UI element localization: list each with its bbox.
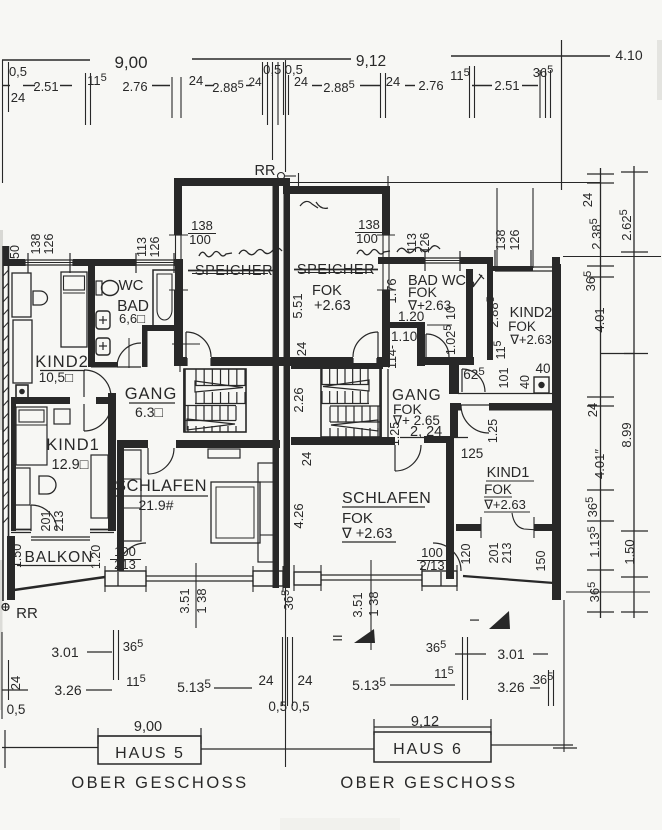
svg-text:138: 138 bbox=[191, 218, 213, 233]
svg-text:1.20: 1.20 bbox=[398, 309, 424, 324]
svg-text:138: 138 bbox=[29, 234, 43, 255]
svg-text:2.76: 2.76 bbox=[122, 79, 147, 94]
svg-text:II: II bbox=[330, 634, 345, 641]
svg-text:213: 213 bbox=[500, 543, 514, 564]
svg-text:FOK: FOK bbox=[484, 482, 512, 497]
svg-text:HAUS 5: HAUS 5 bbox=[115, 745, 185, 762]
svg-text:HAUS 6: HAUS 6 bbox=[393, 741, 463, 758]
svg-text:2.76: 2.76 bbox=[418, 78, 443, 93]
svg-text:GANG: GANG bbox=[125, 385, 178, 403]
svg-text:24: 24 bbox=[299, 452, 314, 466]
svg-text:10: 10 bbox=[444, 306, 458, 320]
svg-text:KIND1: KIND1 bbox=[487, 465, 530, 481]
svg-text:3.51: 3.51 bbox=[177, 588, 192, 613]
svg-text:100: 100 bbox=[356, 231, 378, 246]
svg-text:9,12: 9,12 bbox=[356, 53, 386, 70]
svg-text:120: 120 bbox=[459, 544, 473, 565]
svg-text:OBER GESCHOSS: OBER GESCHOSS bbox=[340, 774, 517, 792]
svg-text:113: 113 bbox=[405, 233, 419, 253]
svg-text:24: 24 bbox=[189, 73, 203, 88]
svg-text:24: 24 bbox=[297, 673, 313, 688]
svg-text:1.50: 1.50 bbox=[10, 544, 24, 568]
svg-text:0,5: 0,5 bbox=[7, 702, 26, 717]
svg-text:1.20: 1.20 bbox=[89, 545, 103, 569]
svg-text:∇+2.63: ∇+2.63 bbox=[483, 497, 526, 512]
svg-text:126: 126 bbox=[508, 230, 522, 251]
svg-text:138: 138 bbox=[358, 217, 380, 232]
svg-text:3.01: 3.01 bbox=[497, 646, 524, 662]
svg-text:213: 213 bbox=[52, 511, 66, 532]
svg-text:40: 40 bbox=[518, 375, 532, 389]
svg-text:2.51: 2.51 bbox=[494, 78, 519, 93]
svg-text:126: 126 bbox=[42, 234, 56, 255]
svg-text:6,6□: 6,6□ bbox=[119, 311, 145, 326]
svg-text:OBER GESCHOSS: OBER GESCHOSS bbox=[71, 774, 248, 792]
svg-text:6.3□: 6.3□ bbox=[135, 404, 163, 420]
svg-text:24: 24 bbox=[258, 673, 274, 688]
svg-text:RR: RR bbox=[16, 605, 38, 622]
svg-text:1.25: 1.25 bbox=[486, 419, 500, 443]
svg-text:KIND2: KIND2 bbox=[35, 353, 89, 371]
svg-text:1.10: 1.10 bbox=[391, 329, 417, 344]
svg-text:KIND1: KIND1 bbox=[46, 436, 100, 454]
svg-text:3.26: 3.26 bbox=[497, 679, 524, 695]
svg-text:1.76: 1.76 bbox=[384, 278, 399, 303]
svg-text:SCHLAFEN: SCHLAFEN bbox=[115, 477, 207, 495]
svg-text:12.9□: 12.9□ bbox=[52, 457, 89, 473]
svg-text:4.26: 4.26 bbox=[291, 503, 306, 528]
svg-text:125: 125 bbox=[461, 446, 484, 461]
svg-text:113: 113 bbox=[135, 237, 149, 257]
svg-text:∇ +2.63: ∇ +2.63 bbox=[341, 526, 392, 542]
svg-text:4.10: 4.10 bbox=[615, 47, 642, 63]
svg-text:10,5□: 10,5□ bbox=[39, 370, 73, 385]
svg-text:24: 24 bbox=[294, 342, 309, 356]
svg-text:24: 24 bbox=[8, 676, 23, 690]
svg-text:2.26: 2.26 bbox=[291, 387, 306, 412]
svg-text:FOK: FOK bbox=[312, 283, 342, 299]
svg-text:4.01″: 4.01″ bbox=[592, 449, 607, 479]
svg-text:2.51: 2.51 bbox=[33, 79, 58, 94]
svg-text:0,5: 0,5 bbox=[9, 64, 27, 79]
svg-text:24: 24 bbox=[248, 75, 262, 89]
svg-text:∇+2.63: ∇+2.63 bbox=[509, 332, 552, 347]
svg-text:138: 138 bbox=[494, 230, 508, 251]
svg-text:3.01: 3.01 bbox=[51, 644, 78, 660]
svg-text:RR: RR bbox=[255, 163, 276, 179]
svg-text:114-: 114- bbox=[385, 345, 399, 369]
svg-text:9,00: 9,00 bbox=[134, 719, 162, 735]
svg-text:I: I bbox=[467, 618, 482, 622]
svg-text:8.99: 8.99 bbox=[619, 422, 634, 447]
svg-text:+2.63: +2.63 bbox=[314, 298, 351, 314]
svg-text:100: 100 bbox=[189, 232, 211, 247]
svg-text:1.50: 1.50 bbox=[622, 539, 637, 564]
svg-text:9,00: 9,00 bbox=[114, 53, 147, 72]
svg-text:150: 150 bbox=[534, 551, 548, 572]
svg-text:4.01: 4.01 bbox=[592, 307, 607, 332]
svg-text:21.9#: 21.9# bbox=[138, 497, 173, 513]
svg-text:SCHLAFEN: SCHLAFEN bbox=[342, 490, 431, 507]
svg-text:201: 201 bbox=[487, 543, 501, 564]
svg-text:FOK: FOK bbox=[342, 510, 373, 527]
svg-text:24: 24 bbox=[294, 75, 308, 89]
svg-text:126: 126 bbox=[148, 237, 162, 258]
svg-text:3.26: 3.26 bbox=[54, 682, 81, 698]
svg-text:WC: WC bbox=[119, 277, 144, 294]
svg-text:24: 24 bbox=[386, 74, 400, 89]
svg-text:126: 126 bbox=[418, 233, 432, 254]
svg-text:1 38: 1 38 bbox=[366, 591, 381, 616]
svg-text:40: 40 bbox=[535, 361, 550, 376]
svg-text:1.25: 1.25 bbox=[388, 422, 402, 446]
svg-text:101: 101 bbox=[497, 368, 511, 389]
svg-text:24: 24 bbox=[11, 90, 25, 105]
svg-text:201: 201 bbox=[39, 511, 53, 532]
svg-text:24: 24 bbox=[585, 403, 600, 417]
svg-text:24: 24 bbox=[580, 193, 595, 207]
svg-text:50: 50 bbox=[8, 245, 22, 259]
svg-text:5.51: 5.51 bbox=[290, 293, 305, 318]
svg-text:3.51: 3.51 bbox=[350, 592, 365, 617]
svg-text:BALKON: BALKON bbox=[25, 549, 94, 566]
svg-text:0,5 0,5: 0,5 0,5 bbox=[268, 699, 309, 714]
